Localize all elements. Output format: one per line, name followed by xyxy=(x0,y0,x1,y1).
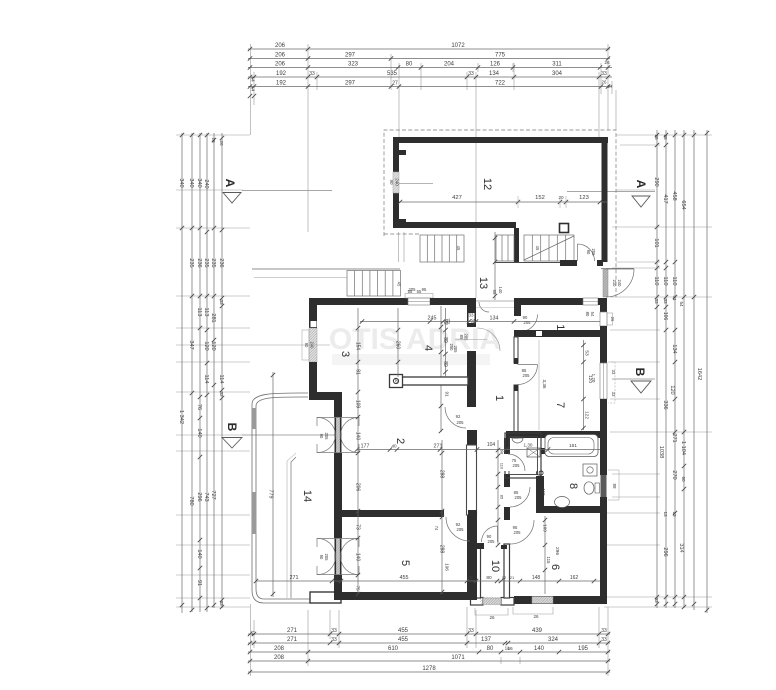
entry threshold line xyxy=(601,268,634,270)
svg-text:12: 12 xyxy=(481,178,493,190)
svg-text:80: 80 xyxy=(585,312,590,317)
bottom dim line 4 xyxy=(248,659,610,663)
svg-text:32: 32 xyxy=(219,391,224,397)
svg-text:88: 88 xyxy=(612,483,617,489)
svg-text:73: 73 xyxy=(355,524,361,530)
svg-text:535: 535 xyxy=(387,71,398,77)
terrace boundary inner xyxy=(256,397,341,599)
svg-text:74: 74 xyxy=(434,526,439,531)
svg-text:106: 106 xyxy=(662,312,668,321)
stair flight lower (exterior) xyxy=(347,271,401,297)
room 9 outlined walls xyxy=(505,433,541,478)
room 10 threshold pier right xyxy=(501,545,507,549)
svg-text:205: 205 xyxy=(524,320,532,325)
room 5 left wall bottom xyxy=(334,575,342,600)
room 10 threshold box left xyxy=(471,598,484,606)
right dim line 1 xyxy=(655,130,659,608)
svg-text:340: 340 xyxy=(196,178,202,187)
right dim line 3 xyxy=(673,130,677,608)
svg-text:85: 85 xyxy=(500,495,505,500)
svg-text:14: 14 xyxy=(250,630,256,636)
svg-text:26: 26 xyxy=(604,60,610,66)
room 3 window leader xyxy=(243,344,330,346)
svg-text:21: 21 xyxy=(510,575,515,580)
rooms 9-8 divider nib xyxy=(541,448,546,454)
svg-text:33: 33 xyxy=(468,628,474,634)
room 3 window jamb core bottom xyxy=(311,363,317,369)
svg-text:51: 51 xyxy=(672,295,677,301)
svg-text:2: 2 xyxy=(394,438,406,444)
svg-text:205: 205 xyxy=(409,287,417,292)
svg-text:33: 33 xyxy=(219,299,224,305)
svg-text:154: 154 xyxy=(355,342,361,351)
svg-text:85: 85 xyxy=(459,335,464,340)
svg-text:311: 311 xyxy=(552,62,562,68)
right dim extension lines xyxy=(604,135,712,607)
section marker B left xyxy=(222,423,242,448)
interior vchain x398 xyxy=(396,308,400,377)
svg-text:A: A xyxy=(634,180,648,189)
svg-text:40: 40 xyxy=(394,377,399,383)
svg-text:134: 134 xyxy=(671,344,677,353)
svg-text:66: 66 xyxy=(507,646,513,652)
svg-text:9: 9 xyxy=(533,470,545,476)
svg-text:236: 236 xyxy=(196,258,202,267)
toilet room 8 xyxy=(584,482,600,494)
svg-text:177: 177 xyxy=(361,444,370,450)
room 6 door arc xyxy=(510,520,534,544)
left dim line 4 xyxy=(205,133,209,612)
svg-text:417: 417 xyxy=(662,194,668,203)
room 12 right wall xyxy=(602,137,608,262)
svg-text:240: 240 xyxy=(395,178,400,186)
svg-text:3,36: 3,36 xyxy=(542,380,547,389)
svg-text:3: 3 xyxy=(339,351,351,357)
svg-text:140: 140 xyxy=(498,287,503,295)
hall-stair door arc xyxy=(477,328,500,351)
top opening lintel2 xyxy=(476,306,514,308)
stair landing edge xyxy=(494,262,574,264)
svg-text:610: 610 xyxy=(388,646,399,652)
svg-text:A: A xyxy=(223,179,237,188)
svg-text:1642: 1642 xyxy=(696,368,702,380)
svg-text:55: 55 xyxy=(492,290,497,295)
svg-text:91: 91 xyxy=(445,391,450,397)
house top wall right segment xyxy=(514,298,583,305)
svg-text:95: 95 xyxy=(422,287,427,292)
svg-text:455: 455 xyxy=(398,637,409,643)
svg-text:110: 110 xyxy=(653,277,659,286)
svg-text:33: 33 xyxy=(654,597,659,603)
svg-text:780: 780 xyxy=(188,496,194,505)
svg-text:33: 33 xyxy=(468,313,474,318)
double-swing terrace door 1 xyxy=(317,417,359,453)
room7 vchain x583 xyxy=(581,340,585,430)
room 11 west wall lower xyxy=(516,330,521,337)
right dim line 6 xyxy=(705,130,709,613)
svg-text:271: 271 xyxy=(671,433,677,442)
top dim line 1 (206/1072) xyxy=(248,47,610,51)
room 3 window jamb core top xyxy=(311,321,317,327)
svg-text:80: 80 xyxy=(487,646,494,652)
room 5 north wall xyxy=(334,510,444,517)
right dim line 5 xyxy=(692,130,696,610)
house right wall seg 2 xyxy=(600,326,607,363)
svg-text:10: 10 xyxy=(489,560,501,572)
svg-text:54: 54 xyxy=(590,312,595,317)
stair hall east wall mid xyxy=(467,351,476,407)
section marker A right xyxy=(632,180,650,207)
svg-text:110: 110 xyxy=(671,277,677,286)
shower/appliance room 9 xyxy=(527,448,540,457)
room 10 threshold pier left xyxy=(476,543,484,549)
svg-text:1 104: 1 104 xyxy=(680,441,686,455)
svg-text:323: 323 xyxy=(348,62,359,68)
svg-text:80: 80 xyxy=(406,62,413,68)
svg-text:33: 33 xyxy=(663,298,668,304)
room 10 bottom window xyxy=(480,597,501,605)
corridor east pier 3 xyxy=(504,507,510,520)
svg-text:235: 235 xyxy=(188,258,194,267)
svg-text:90: 90 xyxy=(319,555,324,560)
svg-text:54: 54 xyxy=(679,301,684,307)
house right wall seg 1 xyxy=(600,298,607,312)
svg-text:271: 271 xyxy=(290,575,299,581)
house right wall seg 4 xyxy=(600,497,607,604)
svg-text:654: 654 xyxy=(680,200,686,209)
dashed outline bottom left part xyxy=(384,233,420,235)
svg-text:140: 140 xyxy=(534,646,545,652)
svg-text:13: 13 xyxy=(663,511,668,517)
svg-text:90: 90 xyxy=(304,343,309,348)
svg-text:148: 148 xyxy=(532,575,541,581)
room 7 west wall lower (outlined) xyxy=(514,385,518,438)
svg-text:113: 113 xyxy=(196,308,202,317)
svg-text:205: 205 xyxy=(514,530,522,535)
svg-text:1038: 1038 xyxy=(658,446,664,458)
svg-text:120: 120 xyxy=(587,375,593,383)
section line A right xyxy=(567,191,655,193)
svg-text:104: 104 xyxy=(487,442,496,448)
svg-text:205: 205 xyxy=(488,539,496,544)
right dim line 4 xyxy=(682,130,686,609)
svg-text:206: 206 xyxy=(275,53,286,59)
room 12 window left hatch xyxy=(393,172,399,193)
bathtub xyxy=(545,435,598,457)
svg-text:1071: 1071 xyxy=(451,655,465,661)
svg-text:33: 33 xyxy=(601,637,607,643)
stair dim chain xyxy=(493,232,497,300)
svg-text:208: 208 xyxy=(274,646,285,652)
room 10 threshold box right xyxy=(501,598,514,606)
room 10 sill bracket xyxy=(475,608,508,615)
svg-text:120: 120 xyxy=(203,341,209,350)
room 10 left wall (outlined) xyxy=(475,544,481,598)
svg-text:90: 90 xyxy=(389,179,394,185)
svg-text:75: 75 xyxy=(356,585,361,591)
svg-text:210: 210 xyxy=(612,280,617,288)
washbasin room 9 xyxy=(512,438,523,443)
svg-text:26: 26 xyxy=(610,317,615,322)
house left step wall xyxy=(309,392,342,400)
svg-text:33: 33 xyxy=(468,575,473,580)
svg-text:92: 92 xyxy=(456,414,461,419)
svg-text:290: 290 xyxy=(653,177,659,186)
svg-text:192: 192 xyxy=(276,71,287,77)
svg-text:33: 33 xyxy=(601,628,607,634)
svg-text:6: 6 xyxy=(549,564,561,570)
svg-text:340: 340 xyxy=(178,178,184,187)
svg-text:245: 245 xyxy=(428,316,437,322)
stair door arc xyxy=(578,244,595,261)
room 11 west wall jamb xyxy=(514,305,521,316)
pier 33 box xyxy=(469,313,475,323)
svg-text:162: 162 xyxy=(570,575,579,581)
chimney flue box xyxy=(390,375,403,388)
svg-text:45: 45 xyxy=(535,246,540,251)
room6 vchain x545 xyxy=(543,516,547,594)
stairwell wall left of stairs xyxy=(514,228,519,262)
hall west wall jamb xyxy=(467,430,477,445)
bottom dim extension lines xyxy=(251,604,609,676)
svg-text:26: 26 xyxy=(533,614,539,619)
terrace mid line xyxy=(254,277,347,279)
svg-text:236: 236 xyxy=(218,258,224,267)
svg-text:11: 11 xyxy=(554,324,566,335)
svg-text:81: 81 xyxy=(355,369,361,375)
svg-text:458: 458 xyxy=(671,191,677,200)
svg-text:206: 206 xyxy=(275,43,286,49)
svg-text:270: 270 xyxy=(671,470,677,479)
svg-text:205: 205 xyxy=(464,334,469,342)
room 11 south wall notch xyxy=(536,331,542,336)
svg-text:288: 288 xyxy=(439,545,445,554)
section marker B right xyxy=(631,368,651,393)
terrace dim 779 xyxy=(271,372,275,597)
svg-text:120: 120 xyxy=(669,385,675,394)
svg-text:427: 427 xyxy=(452,195,462,201)
svg-text:206: 206 xyxy=(275,62,286,68)
room 6 bottom window xyxy=(532,597,553,604)
room 8 window dark xyxy=(601,475,607,497)
svg-text:455: 455 xyxy=(400,575,409,581)
svg-text:727: 727 xyxy=(210,490,216,499)
svg-text:B: B xyxy=(225,423,239,432)
entry pier hatch xyxy=(603,269,608,297)
svg-text:33: 33 xyxy=(331,628,337,634)
svg-text:304: 304 xyxy=(552,71,563,77)
dim chain guides room 12 xyxy=(518,196,566,208)
svg-text:204: 204 xyxy=(444,62,455,68)
room 7 leader line xyxy=(538,340,540,430)
svg-text:4: 4 xyxy=(422,345,434,351)
svg-text:347: 347 xyxy=(188,340,194,349)
chimney box room 12 xyxy=(560,224,569,233)
svg-text:12: 12 xyxy=(502,575,507,580)
bottom dim line 1 xyxy=(248,632,610,636)
entry door arc xyxy=(606,269,634,297)
wall under stairs xyxy=(560,260,577,266)
svg-text:296: 296 xyxy=(554,547,560,555)
svg-text:45: 45 xyxy=(397,282,402,287)
top dim extension lines xyxy=(251,44,617,298)
room 7 door arc xyxy=(518,365,538,385)
room 8 window bracket xyxy=(608,470,619,500)
room 6 north wall xyxy=(536,506,600,513)
svg-text:324: 324 xyxy=(548,637,559,643)
svg-text:260: 260 xyxy=(395,341,401,350)
svg-text:113: 113 xyxy=(203,308,209,317)
left dim line 5 xyxy=(212,133,216,608)
room 12 left wall pilaster top xyxy=(393,150,406,155)
svg-text:26: 26 xyxy=(211,137,216,143)
interior chain y448 xyxy=(355,447,600,451)
room 7 west wall upper (outlined) xyxy=(514,337,518,363)
top dim line 4 xyxy=(248,75,612,79)
svg-text:80: 80 xyxy=(486,575,492,581)
svg-text:33: 33 xyxy=(654,298,659,304)
room 8 south wall xyxy=(536,506,600,513)
svg-text:53: 53 xyxy=(584,350,590,356)
svg-text:455: 455 xyxy=(398,628,409,634)
svg-text:296: 296 xyxy=(196,492,202,501)
terrace boundary wall seg 2 xyxy=(252,492,257,534)
svg-text:72: 72 xyxy=(442,319,448,325)
room 5-10 divider wall xyxy=(467,515,477,600)
svg-text:271: 271 xyxy=(434,444,443,450)
top dim line 2 (206/297/775) xyxy=(248,56,610,60)
svg-text:26: 26 xyxy=(489,615,495,620)
svg-text:336: 336 xyxy=(662,400,668,409)
svg-text:109: 109 xyxy=(355,400,361,409)
room2-hall door arc xyxy=(445,407,466,428)
entrance lobby door arc small xyxy=(479,302,489,312)
svg-text:288: 288 xyxy=(439,470,445,479)
svg-text:33: 33 xyxy=(611,392,616,397)
svg-text:40: 40 xyxy=(391,444,397,449)
top wall window xyxy=(405,294,433,306)
svg-text:208: 208 xyxy=(274,655,285,661)
interior vchain x445 xyxy=(443,308,447,377)
right dim line 2 xyxy=(664,130,668,608)
house left wall upper xyxy=(309,298,317,328)
house top right corner xyxy=(598,298,607,305)
room 12 window leader line xyxy=(399,183,433,185)
svg-text:240: 240 xyxy=(617,280,622,288)
svg-text:26: 26 xyxy=(654,134,659,140)
left dim line 2 xyxy=(190,133,194,612)
svg-text:20: 20 xyxy=(558,195,564,200)
interior vchain x441 xyxy=(439,306,443,433)
house top wall left segment xyxy=(309,298,408,305)
room 11 door arc xyxy=(521,315,538,332)
svg-text:14: 14 xyxy=(250,76,256,82)
room2-corridor wall (double line) xyxy=(467,445,477,515)
room 9 door arc xyxy=(508,454,525,471)
interior chain y320 xyxy=(360,319,600,323)
room 11 top window xyxy=(583,298,598,305)
room 2 left wall mid xyxy=(334,453,342,538)
top dim line 3 xyxy=(248,65,612,69)
svg-text:161: 161 xyxy=(569,443,577,449)
svg-text:779: 779 xyxy=(268,490,274,499)
section line B right xyxy=(612,378,655,380)
bottom dim line 5 xyxy=(248,670,610,674)
hall low wall xyxy=(400,377,468,385)
svg-text:205: 205 xyxy=(453,346,458,354)
svg-text:281: 281 xyxy=(210,313,216,322)
top opening lintel xyxy=(476,300,514,302)
svg-text:123: 123 xyxy=(579,195,589,201)
svg-text:13: 13 xyxy=(672,511,677,517)
svg-text:340: 340 xyxy=(188,178,194,187)
stair hall east wall upper xyxy=(467,298,476,327)
svg-text:45: 45 xyxy=(456,246,461,251)
svg-text:89: 89 xyxy=(442,337,448,343)
section line A left xyxy=(242,190,332,192)
room 6 west wall xyxy=(474,543,480,548)
room 7 window bracket xyxy=(608,362,615,403)
svg-text:27: 27 xyxy=(392,81,398,87)
sink room 8 xyxy=(583,464,597,476)
stair flight upper right xyxy=(524,235,574,261)
dashed roof outline xyxy=(384,130,616,297)
stair flight upper mid xyxy=(496,235,514,261)
terrace inner line xyxy=(291,457,296,598)
svg-text:B: B xyxy=(633,368,647,377)
corridor east pier 2 xyxy=(504,474,510,487)
hall door leader xyxy=(455,339,487,341)
svg-text:14: 14 xyxy=(301,490,313,502)
corridor east pier 1 xyxy=(504,438,510,456)
house bottom wall left segment xyxy=(341,592,467,600)
svg-text:27: 27 xyxy=(607,84,613,89)
double-swing terrace door 2 xyxy=(317,538,359,575)
svg-text:296: 296 xyxy=(662,547,668,556)
svg-text:140: 140 xyxy=(196,428,202,437)
svg-text:205: 205 xyxy=(324,433,329,441)
svg-text:14: 14 xyxy=(250,86,256,92)
left dim line 3 xyxy=(198,133,202,612)
svg-text:114: 114 xyxy=(203,375,209,384)
svg-text:134: 134 xyxy=(489,71,500,77)
left dim extension lines xyxy=(176,135,250,607)
room 11 right window xyxy=(600,312,613,326)
svg-text:109: 109 xyxy=(543,524,548,532)
interior vchain x358 xyxy=(356,308,360,596)
svg-text:26: 26 xyxy=(219,140,224,146)
room 5 north wall right xyxy=(468,510,477,517)
room 7 window xyxy=(600,363,607,399)
svg-text:7: 7 xyxy=(554,402,566,408)
bottom dim line 3 xyxy=(248,650,610,654)
interior vchain x442 xyxy=(440,440,444,594)
svg-text:1 342: 1 342 xyxy=(178,410,184,424)
svg-text:114: 114 xyxy=(218,375,224,384)
room 12 left wall upper xyxy=(393,137,399,172)
svg-text:110: 110 xyxy=(541,489,546,497)
svg-text:314: 314 xyxy=(678,543,684,552)
house right wall seg 3 xyxy=(600,399,607,475)
svg-text:137: 137 xyxy=(481,637,492,643)
svg-text:205: 205 xyxy=(457,420,465,425)
svg-text:205: 205 xyxy=(515,495,523,500)
terrace top edge xyxy=(252,268,400,270)
svg-text:205: 205 xyxy=(324,554,329,562)
section line B left xyxy=(242,434,338,436)
svg-text:240: 240 xyxy=(203,179,209,188)
svg-text:122: 122 xyxy=(584,411,590,419)
